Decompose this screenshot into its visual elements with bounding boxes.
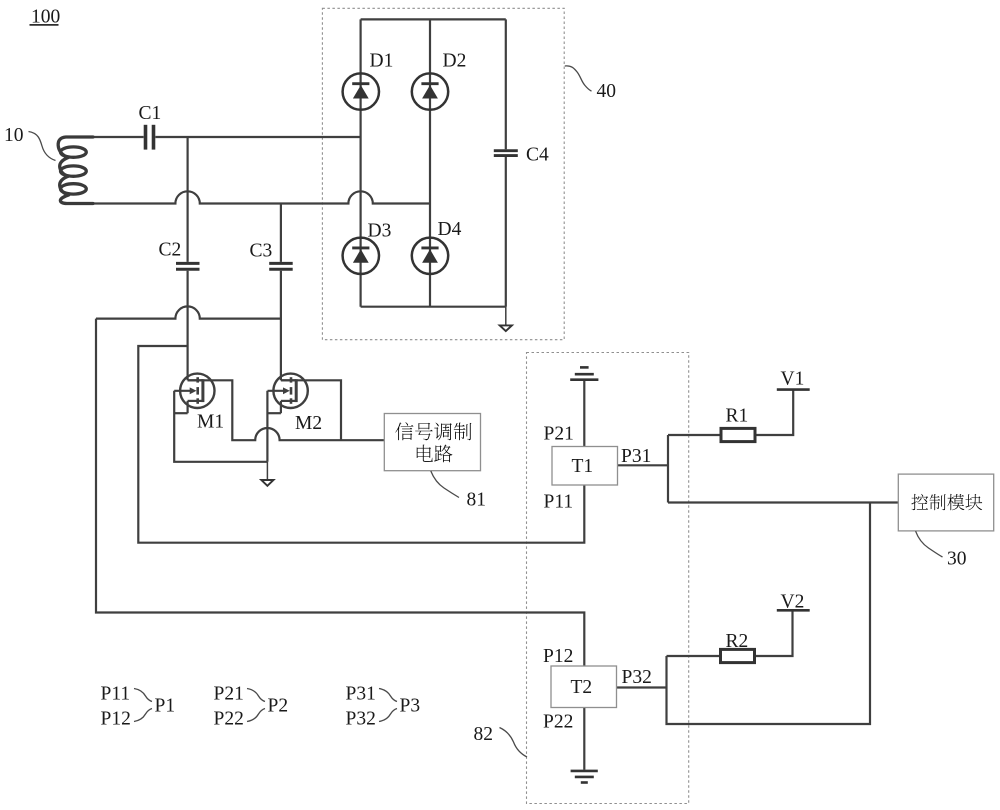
wire: M2 output drop <box>281 380 341 440</box>
wire: M1/M2 outputs to signal modulation circuit <box>188 380 385 440</box>
resistor R1 <box>721 428 755 441</box>
wire: bridge bottom rail <box>361 306 506 308</box>
svg-text:P3: P3 <box>400 696 421 717</box>
wire: M1 gate/source to common ground rail <box>174 391 267 462</box>
diode D1 <box>343 73 379 109</box>
wire: R2 left lead <box>667 655 721 657</box>
wire: control module wire <box>668 501 898 503</box>
capacitor C3 <box>269 263 293 269</box>
wire: vertical C3/M2-drain line <box>280 204 282 381</box>
svg-text:P1: P1 <box>155 696 176 717</box>
earth ground below T2 <box>571 771 598 783</box>
wire: control to T2 side vertical <box>667 503 871 725</box>
wire: bridge middle branch (D2/D4) <box>429 19 431 306</box>
svg-text:P12: P12 <box>543 646 573 667</box>
svg-text:V2: V2 <box>781 592 805 613</box>
svg-text:P31: P31 <box>621 446 651 467</box>
wire: bridge top rail <box>361 18 506 20</box>
label: control module text <box>911 494 928 510</box>
dashed box 40 (rectifier block) <box>322 8 564 339</box>
diode D4 <box>412 238 448 274</box>
capacitor C2 <box>176 263 200 269</box>
inductor 10 (coil) <box>58 137 93 204</box>
svg-text:40: 40 <box>597 81 617 102</box>
wire: C1 to bridge left branch <box>155 136 360 138</box>
svg-text:P31: P31 <box>346 684 376 705</box>
wire: vertical C2/M1-drain line <box>187 137 189 380</box>
box: signal modulation circuit 81 <box>384 414 480 471</box>
wire: T2 P32 lead <box>617 686 667 688</box>
svg-text:P2: P2 <box>268 696 289 717</box>
box T2 <box>551 666 617 708</box>
box: control module 30 <box>898 474 993 531</box>
wire: M2 gate/source down to ground <box>266 391 268 462</box>
wire: R1 right lead to V1 <box>755 391 793 436</box>
svg-text:P21: P21 <box>544 424 574 445</box>
leader for 82 <box>500 728 528 758</box>
svg-text:D2: D2 <box>443 51 467 72</box>
resistor R2 <box>721 649 755 662</box>
wire: bridge right branch (C4) <box>505 19 507 306</box>
ground below M1/M2 <box>261 480 273 486</box>
wire: T2 bottom to earth ground <box>583 708 585 770</box>
svg-text:82: 82 <box>474 724 494 745</box>
svg-text:V1: V1 <box>781 369 805 390</box>
svg-text:C4: C4 <box>526 145 549 166</box>
box T1 <box>552 447 618 486</box>
wire: top lead from coil to C1 <box>88 136 144 138</box>
wire: bridge output to ground stem <box>505 307 507 325</box>
wire: cross wire y=318.6 with hop over C2 line <box>96 306 281 318</box>
leader for 10 <box>29 132 56 161</box>
leader for 81 <box>431 471 459 498</box>
transistor M1 (MOSFET) <box>174 374 214 414</box>
svg-text:P21: P21 <box>214 684 244 705</box>
wire: R1 branch vertical <box>667 435 669 503</box>
svg-text:M2: M2 <box>295 413 322 434</box>
svg-text:P22: P22 <box>543 712 573 733</box>
svg-text:C1: C1 <box>139 103 162 124</box>
svg-text:81: 81 <box>467 490 487 511</box>
V2 supply bar <box>777 609 810 612</box>
svg-text:M1: M1 <box>197 412 224 433</box>
svg-text:P32: P32 <box>622 667 652 688</box>
svg-text:P11: P11 <box>544 492 574 513</box>
leader for 30 <box>916 531 943 557</box>
dashed box 82 (isolation block) <box>527 353 689 804</box>
svg-text:C2: C2 <box>159 240 182 261</box>
V1 supply bar <box>777 388 810 391</box>
wire: M ground stem <box>266 462 268 480</box>
svg-text:T2: T2 <box>571 677 593 698</box>
leader for 40 <box>565 66 592 91</box>
wire: R2 right lead to V2 <box>755 611 793 656</box>
transistor M2 (MOSFET) <box>268 374 308 414</box>
ground below bridge <box>500 325 512 331</box>
svg-text:P22: P22 <box>214 709 244 730</box>
svg-text:C3: C3 <box>250 241 273 262</box>
svg-text:D3: D3 <box>368 221 392 242</box>
svg-text:R2: R2 <box>726 631 749 652</box>
svg-text:30: 30 <box>947 549 967 570</box>
svg-text:P32: P32 <box>346 709 376 730</box>
wire: R1 left lead <box>668 434 721 436</box>
wire: M1 drain node to T1 bottom (P11) <box>138 346 584 543</box>
upper ground above T1 (inverted earth) <box>570 367 598 379</box>
wire: bottom lead from coil to D2/D4 branch with hops <box>88 191 430 203</box>
wire: T1 P31 lead <box>618 464 669 466</box>
diode D3 <box>343 238 379 274</box>
capacitor C4 <box>494 151 518 156</box>
svg-text:D1: D1 <box>370 51 394 72</box>
svg-text:P11: P11 <box>101 684 131 705</box>
svg-text:10: 10 <box>4 125 24 146</box>
wire: left long wire down to T2 input <box>96 319 584 666</box>
capacitor C1 <box>146 125 154 150</box>
diode D2 <box>412 73 448 109</box>
svg-text:T1: T1 <box>572 456 594 477</box>
label: signal modulation circuit text <box>395 422 413 440</box>
svg-text:R1: R1 <box>726 406 749 427</box>
wire: bridge left branch (D1/D3) <box>360 19 362 306</box>
svg-text:P12: P12 <box>101 709 131 730</box>
wire: T1 top to upper ground <box>583 381 585 447</box>
svg-text:D4: D4 <box>438 219 462 240</box>
